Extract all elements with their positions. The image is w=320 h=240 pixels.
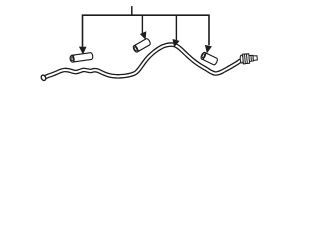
fitting flange washer — [240, 55, 244, 63]
fitting tip — [253, 56, 257, 61]
fitting hex nut body — [243, 54, 250, 64]
arrowhead to tube hump — [173, 39, 180, 47]
fitting stub — [249, 55, 254, 61]
arrowhead to clip C3 — [205, 45, 212, 54]
tube open end cap (left) — [40, 74, 46, 81]
tube inner white core — [45, 45, 241, 78]
arrowhead to clip C1 — [79, 47, 87, 55]
arrowhead to clip C2 — [140, 31, 146, 40]
fitting (flare nut) at right end of tube — [240, 53, 258, 64]
clip C3 (cylindrical clamp, right, angled) — [200, 52, 218, 66]
callout leader bracket — [83, 15, 210, 47]
tube (hose/pipe) outer casing — [45, 45, 241, 78]
callout tick (leader stem to label above) — [131, 6, 133, 15]
clip C2 (cylindrical clamp, middle, angled) — [132, 38, 151, 53]
leader drop line to clip C2 — [141, 15, 143, 33]
clip C1 (cylindrical clamp, left) — [70, 52, 94, 62]
leader drop line to tube hump — [175, 15, 177, 40]
